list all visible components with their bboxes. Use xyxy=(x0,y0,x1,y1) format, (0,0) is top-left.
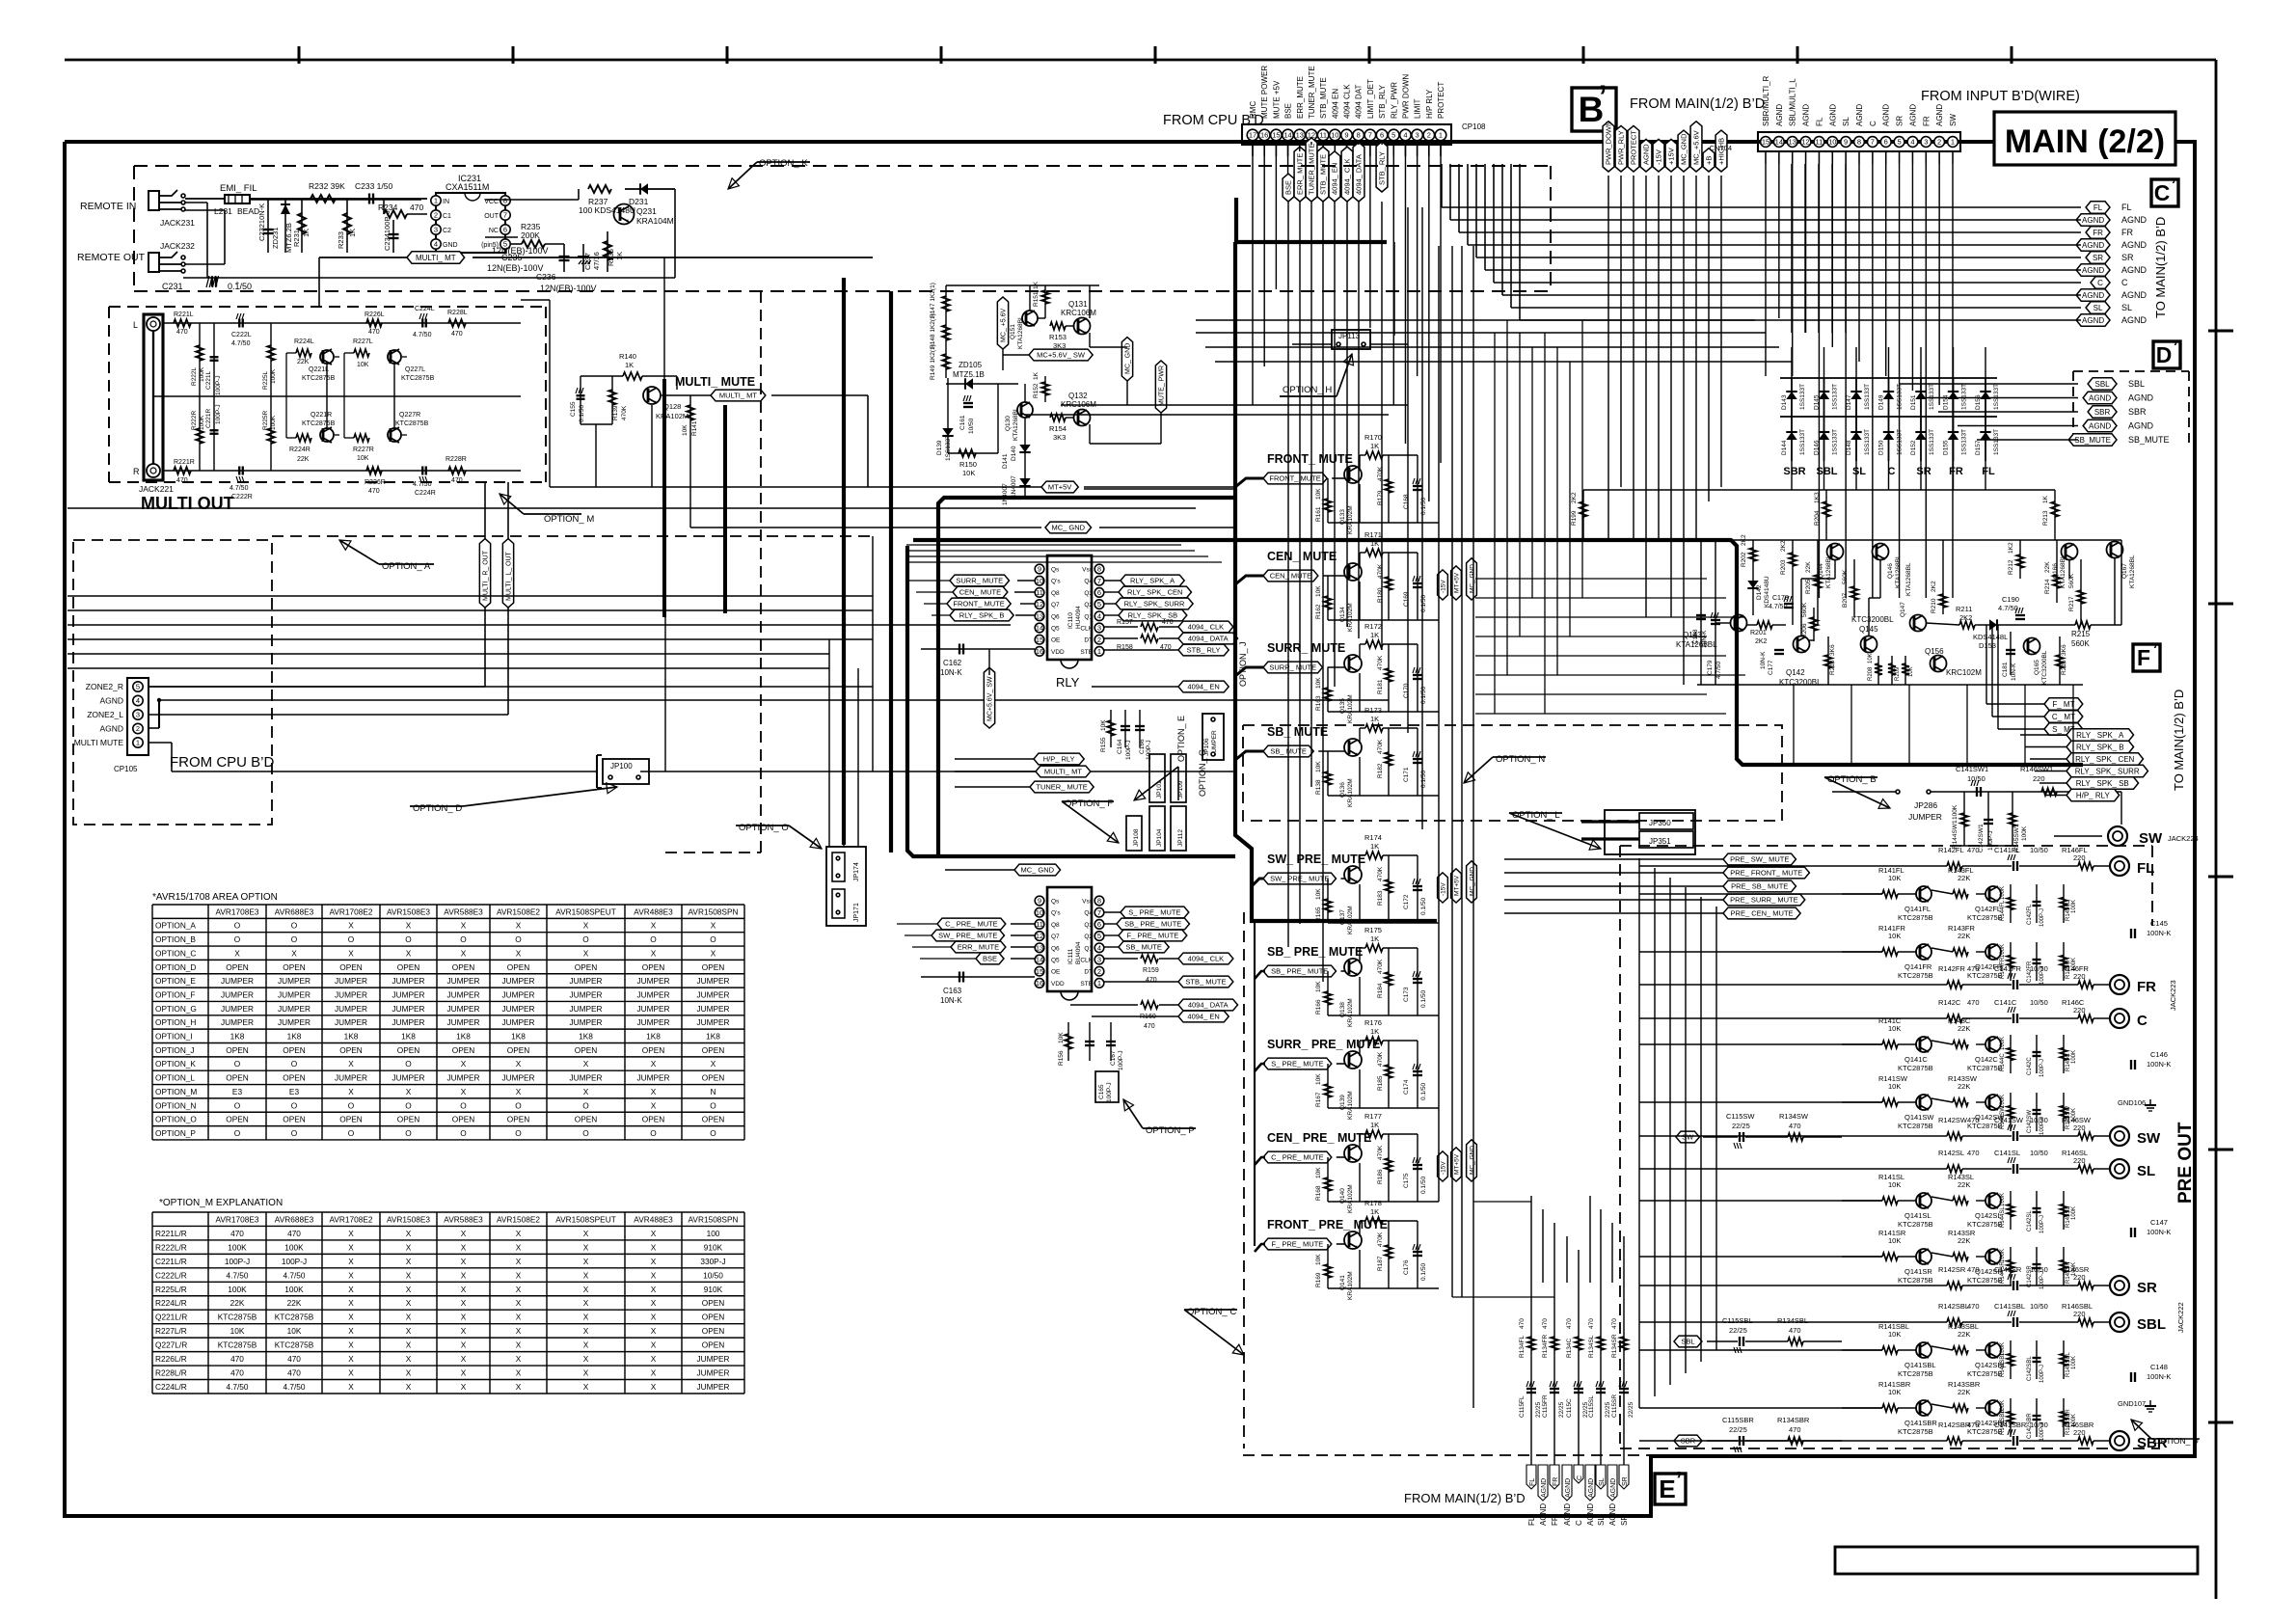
svg-text:C179: C179 xyxy=(1707,660,1714,675)
svg-text:R203: R203 xyxy=(1780,559,1787,575)
svg-text:4: 4 xyxy=(1403,131,1407,140)
svg-text:X: X xyxy=(461,1229,467,1238)
resistor R204 1K3 xyxy=(1814,490,1830,540)
svg-text:12N(EB)-100V: 12N(EB)-100V xyxy=(540,284,597,293)
svg-text:R231: R231 xyxy=(292,230,301,247)
svg-text:C_ PRE_ MUTE: C_ PRE_ MUTE xyxy=(1271,1153,1324,1162)
pre-out channel SW xyxy=(1842,1074,2161,1147)
capacitor C232 10N-K xyxy=(257,199,274,253)
svg-text:JP351: JP351 xyxy=(1649,837,1671,846)
svg-text:D143: D143 xyxy=(1781,394,1788,410)
svg-text:R181: R181 xyxy=(1377,679,1384,694)
svg-text:1K8: 1K8 xyxy=(456,1032,471,1042)
svg-text:X: X xyxy=(711,921,716,931)
svg-text:Q143: Q143 xyxy=(1683,631,1702,639)
svg-text:Q156: Q156 xyxy=(1925,647,1944,656)
wire multi mid bus xyxy=(153,353,521,438)
svg-text:R159: R159 xyxy=(1143,967,1159,974)
capacitor C162 10N-K xyxy=(921,644,1035,678)
wires CP105 to right xyxy=(149,482,1389,771)
svg-text:Q221L/R: Q221L/R xyxy=(155,1313,187,1322)
svg-text:470K: 470K xyxy=(1377,1145,1384,1160)
transistor Q221R KTC2875B xyxy=(302,412,336,444)
svg-text:470: 470 xyxy=(1789,1326,1801,1335)
pre-out channel SBR xyxy=(1842,1380,2168,1451)
svg-text:C167: C167 xyxy=(1110,1050,1117,1066)
svg-text:JUMPER: JUMPER xyxy=(392,989,424,999)
svg-text:Q231: Q231 xyxy=(636,206,657,216)
svg-text:AVR1508E2: AVR1508E2 xyxy=(497,907,540,916)
svg-text:JUMPER: JUMPER xyxy=(501,1073,534,1083)
svg-text:7: 7 xyxy=(503,211,507,220)
svg-text:KTC2875B: KTC2875B xyxy=(1967,1427,2003,1436)
svg-text:LIMIT_DET: LIMIT_DET xyxy=(1366,79,1375,119)
svg-text:Q221L: Q221L xyxy=(309,366,329,373)
svg-text:FRONT_ MUTE: FRONT_ MUTE xyxy=(1267,452,1353,466)
svg-text:KTC2875B: KTC2875B xyxy=(302,420,336,427)
resistor R202 2K2 xyxy=(1741,534,1757,569)
svg-text:KTA1268BL: KTA1268BL xyxy=(1905,562,1912,596)
capacitor C161 10/50 xyxy=(959,395,975,434)
svg-text:R156: R156 xyxy=(1058,1050,1065,1066)
svg-text:8: 8 xyxy=(1097,565,1101,574)
svg-text:1K2: 1K2 xyxy=(2008,542,2014,554)
svg-text:X: X xyxy=(583,1340,589,1350)
svg-text:X: X xyxy=(651,1270,657,1280)
svg-text:O: O xyxy=(650,1128,657,1138)
svg-text:MC_ GND: MC_ GND xyxy=(1469,564,1475,593)
jack JACK221 xyxy=(133,314,174,494)
svg-text:R142SW: R142SW xyxy=(1938,1116,1968,1124)
svg-text:C224L: C224L xyxy=(415,306,435,312)
diodes D140 D141 1N4007 xyxy=(1002,418,1031,505)
input column R134/C115 FL FR C SL SR xyxy=(1519,1283,1634,1465)
svg-text:R222L: R222L xyxy=(191,366,198,386)
svg-text:D157: D157 xyxy=(1975,440,1982,455)
svg-text:100K: 100K xyxy=(270,368,277,384)
svg-text:X: X xyxy=(348,1270,354,1280)
svg-text:R222R: R222R xyxy=(191,410,198,430)
svg-text:AGND: AGND xyxy=(1908,104,1917,126)
svg-text:D156: D156 xyxy=(1975,394,1982,410)
svg-text:4.7/50: 4.7/50 xyxy=(230,485,249,492)
svg-text:470K: 470K xyxy=(1377,739,1384,754)
svg-text:4.7/50: 4.7/50 xyxy=(226,1270,248,1280)
svg-text:FRONT_ MUTE: FRONT_ MUTE xyxy=(1269,474,1320,483)
wire mesh hex column verticals xyxy=(1608,176,1721,685)
svg-text:470: 470 xyxy=(230,1368,244,1378)
svg-text:4.7/50: 4.7/50 xyxy=(1715,662,1722,679)
svg-text:JP101: JP101 xyxy=(1156,780,1163,798)
svg-text:100P-J: 100P-J xyxy=(1118,1050,1124,1070)
svg-text:OPEN: OPEN xyxy=(397,1045,420,1055)
resistor R225R 100K xyxy=(262,396,277,471)
svg-text:FL: FL xyxy=(2093,203,2103,212)
svg-text:Q151: Q151 xyxy=(1010,324,1016,339)
net label MULTI_MT at Q128 xyxy=(662,390,868,487)
svg-text:C142C: C142C xyxy=(2027,1057,2033,1075)
svg-text:0.1/50: 0.1/50 xyxy=(1420,1263,1427,1281)
svg-text:MULTI_ MT: MULTI_ MT xyxy=(416,254,456,262)
svg-text:C141C: C141C xyxy=(1994,998,2017,1007)
svg-text:1N4007: 1N4007 xyxy=(1011,475,1017,498)
svg-text:AVR1508SPN: AVR1508SPN xyxy=(689,1214,739,1224)
svg-text:Q142SR: Q142SR xyxy=(1975,1267,2003,1276)
svg-text:KTC2875B: KTC2875B xyxy=(401,375,435,382)
svg-text:SL: SL xyxy=(2121,303,2132,312)
svg-text:OPEN: OPEN xyxy=(575,1045,598,1055)
svg-text:KTC3200BL: KTC3200BL xyxy=(2041,650,2048,685)
svg-text:4: 4 xyxy=(1910,138,1914,147)
svg-text:OPEN: OPEN xyxy=(339,962,363,972)
svg-text:X: X xyxy=(461,1368,467,1378)
svg-text:1SS133T: 1SS133T xyxy=(1799,384,1806,410)
wire after bead xyxy=(250,198,427,200)
svg-text:100P-J: 100P-J xyxy=(1987,830,1994,851)
svg-text:O: O xyxy=(234,1100,241,1110)
dashed option_n box xyxy=(1243,725,1782,821)
resistor R156 10K xyxy=(1058,1022,1072,1066)
svg-text:MT+5V: MT+5V xyxy=(1048,483,1071,492)
svg-text:2K2: 2K2 xyxy=(1959,613,1972,622)
svg-text:Qs: Qs xyxy=(1051,899,1060,906)
svg-text:470: 470 xyxy=(1967,846,1980,854)
svg-text:1SS133T: 1SS133T xyxy=(1993,384,2000,410)
jumper JP113 xyxy=(1292,330,1408,349)
svg-text:X: X xyxy=(651,1354,657,1364)
svg-text:C142SBR: C142SBR xyxy=(2027,1413,2033,1439)
svg-text:X: X xyxy=(651,1257,657,1266)
svg-text:R167: R167 xyxy=(1315,1092,1322,1107)
svg-text:22K: 22K xyxy=(1958,1180,1970,1189)
svg-text:10K: 10K xyxy=(1315,1254,1322,1265)
svg-text:C155: C155 xyxy=(570,401,577,417)
svg-text:470: 470 xyxy=(1967,1302,1980,1311)
svg-text:JP104: JP104 xyxy=(1156,828,1163,847)
svg-text:’: ’ xyxy=(2152,639,2157,661)
svg-text:AGND: AGND xyxy=(1775,104,1784,126)
svg-text:MT+5V: MT+5V xyxy=(1453,1153,1460,1175)
svg-text:470K: 470K xyxy=(1377,959,1384,974)
table OPTION_M EXPLANATION xyxy=(152,1198,744,1394)
svg-text:10N-K: 10N-K xyxy=(2011,663,2017,681)
svg-text:ZONE2_L: ZONE2_L xyxy=(87,710,123,719)
svg-text:4.7/50: 4.7/50 xyxy=(413,481,432,488)
svg-text:X: X xyxy=(583,1257,589,1266)
svg-text:X: X xyxy=(406,1257,412,1266)
svg-text:KTC2875B: KTC2875B xyxy=(1967,1276,2003,1285)
svg-text:X: X xyxy=(406,1270,412,1280)
svg-text:C161: C161 xyxy=(959,415,966,430)
wire mesh center-right verticals xyxy=(1495,320,1582,714)
svg-text:C222L: C222L xyxy=(231,332,252,338)
svg-text:OPEN: OPEN xyxy=(226,1073,249,1083)
svg-text:KTC2875B: KTC2875B xyxy=(1898,1427,1933,1436)
thick bus MC+5.6V horizontal xyxy=(844,278,1236,858)
svg-text:VDD: VDD xyxy=(1051,981,1065,988)
thick bus from CP108 down middle xyxy=(1235,198,1437,1246)
diode matrix D143-D157 1SS133T xyxy=(1780,378,2000,477)
svg-text:PROTECT: PROTECT xyxy=(1437,82,1445,119)
svg-text:X: X xyxy=(583,921,589,931)
svg-text:1K: 1K xyxy=(1370,1207,1379,1216)
svg-text:100K: 100K xyxy=(199,415,205,430)
svg-text:KRA102M: KRA102M xyxy=(1347,1184,1354,1213)
svg-text:R233: R233 xyxy=(337,231,345,249)
svg-text:AVR688E3: AVR688E3 xyxy=(275,907,314,916)
svg-text:10K: 10K xyxy=(1315,981,1322,992)
svg-text:10/50: 10/50 xyxy=(968,418,975,434)
svg-text:AGND: AGND xyxy=(2082,216,2104,225)
svg-text:10: 10 xyxy=(1036,577,1043,585)
svg-text:JUMPER: JUMPER xyxy=(501,1017,534,1027)
svg-text:100K: 100K xyxy=(2071,1206,2077,1220)
svg-text:-15V: -15V xyxy=(1440,1161,1446,1175)
remote block dashed outline xyxy=(134,165,1551,167)
svg-text:Q146: Q146 xyxy=(1887,563,1894,579)
wires remote block xyxy=(183,189,675,278)
svg-text:MUTE +5V: MUTE +5V xyxy=(1272,80,1281,119)
svg-text:X: X xyxy=(461,1298,467,1308)
svg-text:KTC2875B: KTC2875B xyxy=(218,1340,257,1350)
net labels below CP108 (BSE..STB_RLY) xyxy=(1283,138,1388,202)
dashed option_c vertical xyxy=(1184,912,1651,1455)
svg-text:R227L/R: R227L/R xyxy=(155,1326,187,1336)
capacitor C165 100P-J box xyxy=(1095,1071,1119,1102)
svg-text:OPTION_ N: OPTION_ N xyxy=(1496,754,1545,765)
svg-text:R162: R162 xyxy=(1315,604,1322,619)
jack JACK231 xyxy=(149,190,195,228)
svg-text:100P-J: 100P-J xyxy=(2039,966,2045,985)
svg-text:JUMPER: JUMPER xyxy=(1908,812,1942,822)
svg-text:1K8: 1K8 xyxy=(344,1032,359,1042)
svg-text:E3: E3 xyxy=(289,1087,300,1096)
svg-text:JUMPER: JUMPER xyxy=(696,989,729,999)
svg-text:X: X xyxy=(348,921,354,931)
svg-text:10/50: 10/50 xyxy=(703,1270,723,1280)
svg-text:C224R: C224R xyxy=(415,490,436,497)
svg-text:SR: SR xyxy=(1622,1476,1629,1486)
svg-text:KTC2875B: KTC2875B xyxy=(1898,1122,1933,1130)
svg-text:OPEN: OPEN xyxy=(452,1115,475,1124)
svg-text:0.1/50: 0.1/50 xyxy=(1420,687,1427,704)
svg-text:Q131: Q131 xyxy=(1068,300,1088,309)
svg-text:X: X xyxy=(461,1059,467,1069)
svg-text:3: 3 xyxy=(1097,956,1101,964)
svg-text:4094_ DATA: 4094_ DATA xyxy=(1188,635,1229,643)
svg-text:1SS133T: 1SS133T xyxy=(1961,384,1968,410)
svg-text:10K: 10K xyxy=(1315,1167,1322,1178)
svg-text:100P-J: 100P-J xyxy=(215,404,222,424)
svg-text:0.1/50: 0.1/50 xyxy=(1420,1177,1427,1194)
net stack RLY_SPK_A..H/P_RLY xyxy=(2020,729,2147,801)
svg-text:OPEN: OPEN xyxy=(642,1115,665,1124)
svg-text:OPEN: OPEN xyxy=(452,962,475,972)
svg-text:-15V: -15V xyxy=(1440,882,1446,896)
svg-text:OPTION_ K: OPTION_ K xyxy=(759,158,808,169)
svg-text:X: X xyxy=(651,1229,657,1238)
svg-text:C142SR: C142SR xyxy=(2027,1265,2033,1287)
svg-text:100K: 100K xyxy=(2071,1108,2077,1122)
net label H/P_RLY xyxy=(955,753,1084,765)
svg-text:C115SBR: C115SBR xyxy=(1722,1416,1754,1424)
svg-text:KRA102M: KRA102M xyxy=(1347,1271,1354,1300)
svg-text:MC_GND: MC_GND xyxy=(1680,133,1688,165)
svg-text:+: + xyxy=(235,281,239,287)
svg-text:100K: 100K xyxy=(228,1285,247,1294)
svg-text:REMOTE IN: REMOTE IN xyxy=(80,201,136,212)
svg-text:FL: FL xyxy=(1529,1478,1536,1486)
svg-text:OPEN: OPEN xyxy=(702,1298,725,1308)
svg-text:O: O xyxy=(405,934,412,944)
net stack SBL/SB_MUTE at D' xyxy=(2068,371,2189,446)
svg-text:R225R: R225R xyxy=(262,410,269,430)
svg-text:AGND: AGND xyxy=(1802,104,1811,126)
wire mesh trio verticals xyxy=(1408,207,1473,1408)
R144SW1 C142SW1 R145SW1 verticals xyxy=(1952,792,2028,853)
svg-text:ZONE2_R: ZONE2_R xyxy=(86,682,123,691)
svg-text:KTA1268BL: KTA1268BL xyxy=(1895,555,1902,588)
svg-text:Q1: Q1 xyxy=(1084,945,1093,952)
svg-text:C115SL: C115SL xyxy=(1588,1395,1595,1418)
svg-text:KTC2875B: KTC2875B xyxy=(1967,1122,2003,1130)
transistor Q144 KTA1268BL xyxy=(1818,544,1844,589)
svg-text:0.1/50: 0.1/50 xyxy=(1420,595,1427,612)
svg-text:1: 1 xyxy=(136,739,140,747)
svg-text:4094_ CLK: 4094_ CLK xyxy=(1188,623,1225,632)
svg-text:KTA1268BL: KTA1268BL xyxy=(2129,555,2136,588)
svg-text:14: 14 xyxy=(1775,138,1783,147)
svg-text:X: X xyxy=(516,1382,522,1392)
svg-text:R150: R150 xyxy=(959,460,977,469)
svg-text:R176: R176 xyxy=(1364,1018,1382,1027)
svg-text:11: 11 xyxy=(1319,131,1327,140)
svg-text:9: 9 xyxy=(1038,897,1041,906)
svg-text:9: 9 xyxy=(1844,138,1848,147)
svg-text:JACK222: JACK222 xyxy=(2176,1302,2185,1333)
svg-text:1SS133T: 1SS133T xyxy=(945,435,952,461)
svg-text:22K: 22K xyxy=(1958,1024,1970,1033)
svg-text:KTC2875B: KTC2875B xyxy=(275,1340,314,1350)
svg-text:RLY_ SPK_ CEN: RLY_ SPK_ CEN xyxy=(1127,588,1182,597)
svg-text:X: X xyxy=(651,1326,657,1336)
svg-text:PRE_ FRONT_ MUTE: PRE_ FRONT_ MUTE xyxy=(1730,869,1802,878)
svg-text:AGND: AGND xyxy=(1855,104,1864,126)
svg-text:10K: 10K xyxy=(1315,761,1322,772)
svg-text:10K: 10K xyxy=(230,1326,245,1336)
svg-text:4: 4 xyxy=(434,240,438,249)
svg-text:4094_ EN: 4094_ EN xyxy=(1187,683,1219,691)
svg-text:100K: 100K xyxy=(1952,804,1958,820)
svg-text:PRE OUT: PRE OUT xyxy=(2175,1122,2196,1204)
svg-text:F_ PRE_ MUTE: F_ PRE_ MUTE xyxy=(1272,1240,1324,1249)
svg-text:0.1/50: 0.1/50 xyxy=(228,282,252,291)
svg-text:SL: SL xyxy=(1597,1516,1606,1526)
svg-text:MC_ GND: MC_ GND xyxy=(1469,1146,1475,1175)
svg-text:10K: 10K xyxy=(1888,1024,1901,1033)
svg-text:RLY_ SPK_ SB: RLY_ SPK_ SB xyxy=(2076,779,2129,788)
option_f label xyxy=(1062,798,1119,843)
svg-text:R232 39K: R232 39K xyxy=(309,181,345,191)
svg-text:R202: R202 xyxy=(1741,552,1747,567)
svg-text:JP171: JP171 xyxy=(853,903,860,922)
svg-text:1K8: 1K8 xyxy=(511,1032,526,1042)
svg-text:D231: D231 xyxy=(629,197,649,206)
capacitor C190 4.7/50 xyxy=(1998,595,2025,619)
svg-text:Q132: Q132 xyxy=(1068,392,1088,400)
svg-text:AVR1508E2: AVR1508E2 xyxy=(497,1214,540,1224)
thick bus mute row stubs xyxy=(1235,478,1265,1252)
wire mesh center verticals from CP108 hexes xyxy=(1288,202,1382,982)
svg-text:Q7: Q7 xyxy=(1051,602,1060,609)
svg-text:8: 8 xyxy=(1357,131,1361,140)
svg-text:OPEN: OPEN xyxy=(702,1313,725,1322)
wire mesh left verticals xyxy=(664,257,873,847)
svg-text:MC_ +5.6V: MC_ +5.6V xyxy=(1001,308,1008,342)
svg-text:SR: SR xyxy=(1620,1515,1629,1526)
capacitor C221R 100P-J xyxy=(205,396,222,471)
resistor R227L 10K xyxy=(353,338,373,368)
svg-text:R226L: R226L xyxy=(365,311,385,318)
svg-text:FR: FR xyxy=(1551,1515,1559,1526)
svg-text:C_ MT: C_ MT xyxy=(2052,713,2075,721)
svg-text:FROM INPUT B’D(WIRE): FROM INPUT B’D(WIRE) xyxy=(1921,89,2080,104)
capacitor C222L 4.7/50 xyxy=(231,313,252,347)
svg-text:C142SL: C142SL xyxy=(2027,1210,2033,1232)
wire 12N power to MT+5V row xyxy=(521,300,1041,487)
svg-text:8: 8 xyxy=(1097,897,1101,906)
svg-text:E3: E3 xyxy=(232,1087,243,1096)
svg-text:X: X xyxy=(651,1382,657,1392)
svg-text:C148: C148 xyxy=(2150,1363,2168,1371)
svg-text:KTC2875B: KTC2875B xyxy=(275,1313,314,1322)
multi-out dashed outline xyxy=(109,307,546,482)
svg-text:JUMPER: JUMPER xyxy=(335,1004,367,1014)
svg-text:1K: 1K xyxy=(348,229,357,237)
svg-text:STB_ RLY: STB_ RLY xyxy=(1187,646,1221,655)
svg-text:7: 7 xyxy=(1871,138,1875,147)
svg-text:JACK223: JACK223 xyxy=(2169,980,2177,1011)
svg-text:RLY_ SPK_ B: RLY_ SPK_ B xyxy=(2076,743,2124,751)
svg-text:1SS133T: 1SS133T xyxy=(1832,429,1839,455)
capacitor C237 47/16 xyxy=(578,244,601,272)
svg-text:X: X xyxy=(461,1242,467,1252)
svg-text:O: O xyxy=(515,1128,522,1138)
svg-text:220: 220 xyxy=(2033,774,2045,783)
svg-text:R171: R171 xyxy=(1364,530,1382,539)
svg-text:470: 470 xyxy=(1967,998,1980,1007)
svg-text:R179: R179 xyxy=(1377,490,1384,505)
svg-text:OPEN: OPEN xyxy=(339,1115,363,1124)
svg-text:REMOTE OUT: REMOTE OUT xyxy=(77,252,146,263)
resistor R228R 470 xyxy=(446,456,467,484)
caps C145-C148 100N-K and GND xyxy=(2118,919,2171,1412)
svg-text:AVR1508SPN: AVR1508SPN xyxy=(689,907,739,916)
svg-text:2: 2 xyxy=(1097,967,1101,976)
svg-text:OPEN: OPEN xyxy=(226,962,249,972)
svg-text:470: 470 xyxy=(287,1229,301,1238)
svg-text:CLK: CLK xyxy=(1080,626,1093,633)
svg-text:Q1: Q1 xyxy=(1084,613,1093,620)
wire mesh right verticals under diode matrix xyxy=(1766,164,1846,333)
svg-text:C174: C174 xyxy=(1403,1079,1410,1095)
svg-text:X: X xyxy=(583,1354,589,1364)
svg-text:PRE_ SB_ MUTE: PRE_ SB_ MUTE xyxy=(1731,882,1788,891)
svg-text:AGND: AGND xyxy=(1586,1503,1595,1526)
svg-text:10K: 10K xyxy=(1868,653,1874,663)
svg-text:D141: D141 xyxy=(1002,453,1009,469)
svg-text:ZD231: ZD231 xyxy=(271,227,280,249)
